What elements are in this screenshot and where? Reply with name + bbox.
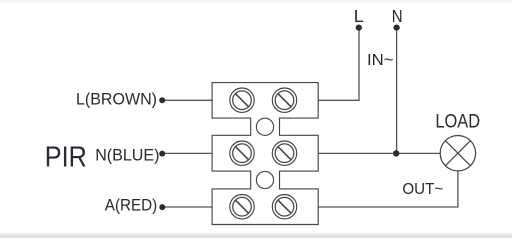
node dot L supply: [356, 25, 362, 31]
screw terminal row1 left: [230, 88, 254, 112]
svg-text:L: L: [354, 6, 364, 26]
screw terminal row1 right: [272, 88, 296, 112]
svg-text:L(BROWN): L(BROWN): [76, 91, 157, 109]
node dot L(BROWN): [159, 97, 165, 103]
wire: block row2 right to lamp: [318, 152, 441, 154]
svg-text:A(RED): A(RED): [105, 196, 157, 214]
svg-text:N: N: [392, 6, 403, 26]
terminal block outline (3 blocks joined by center necks): [212, 83, 318, 225]
svg-text:N(BLUE): N(BLUE): [95, 146, 159, 164]
node dot N(BLUE): [159, 151, 165, 157]
wire: N supply vertical down to junction: [396, 28, 398, 153]
svg-text:PIR: PIR: [45, 142, 87, 174]
screw terminal row2 left: [230, 141, 254, 165]
wire: L(BROWN) dot to terminal block row 1: [163, 99, 212, 101]
screw terminal row2 right: [272, 141, 296, 165]
wire: N(BLUE) dot to block row 2: [163, 152, 212, 154]
svg-text:LOAD: LOAD: [435, 112, 480, 133]
node dot A(RED): [159, 204, 165, 210]
neck hole 1: [256, 118, 273, 135]
lamp LOAD symbol: [440, 136, 475, 171]
screw terminal row3 left: [230, 195, 254, 219]
wire: lamp bottom down and left to block row 3 (OUT): [318, 171, 458, 208]
wire: block row1 right to L supply vertical: [318, 28, 359, 100]
junction dot on N wire at row 2: [393, 150, 399, 156]
wire: A(RED) dot to block row 3: [163, 206, 212, 208]
node dot N supply: [394, 25, 400, 31]
svg-text:OUT~: OUT~: [402, 181, 443, 198]
svg-text:IN~: IN~: [367, 51, 394, 69]
screw terminal row3 right: [272, 195, 296, 219]
neck hole 2: [256, 171, 273, 188]
